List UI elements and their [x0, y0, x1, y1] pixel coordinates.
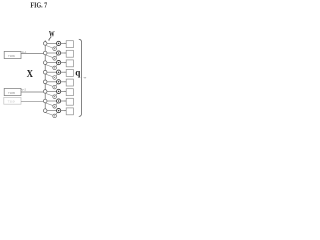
svg-text:q: q: [75, 68, 81, 78]
multiplier M7: [53, 105, 57, 109]
adder A5: [57, 80, 61, 84]
svg-text:7110: 7110: [8, 100, 16, 104]
arrow W to X line: [48, 37, 51, 41]
register R6: [66, 89, 73, 96]
adder A7: [57, 99, 61, 103]
svg-text:w-2: w-2: [21, 87, 26, 91]
wire node N2 to adder A2: [47, 52, 57, 54]
wire node N3 to adder A3: [47, 62, 57, 64]
wire X line to multiplier M1: [46, 45, 54, 48]
register R4: [66, 70, 73, 77]
wire multiplier M6 to adder A6: [56, 93, 58, 95]
wire adder A2 to register R2: [61, 52, 67, 53]
svg-text:7106: 7106: [8, 54, 16, 58]
svg-text:X: X: [27, 69, 34, 80]
node N4 on X line: [43, 70, 47, 74]
adder A4: [57, 70, 61, 74]
register R8: [66, 108, 73, 115]
multiplier M2: [53, 57, 57, 61]
wire multiplier M2 to adder A2: [56, 55, 58, 57]
wire node N5 to adder A5: [47, 81, 57, 83]
wire multiplier M8 to adder A8: [56, 113, 58, 115]
adder A2: [57, 51, 61, 55]
register R5: [66, 79, 73, 86]
input box B2 (7108): [4, 88, 21, 95]
register R1: [66, 41, 73, 48]
node N2 on X line: [43, 51, 47, 55]
svg-text:-w: -w: [83, 76, 87, 80]
node N6 on X line: [43, 90, 47, 94]
wire node N8 to adder A8: [47, 110, 57, 112]
multiplier M5: [53, 85, 57, 89]
brace grouping register column q: [79, 39, 82, 116]
multiplier M1: [53, 47, 57, 51]
node N1 on X line: [43, 42, 47, 46]
wire adder A6 to register R6: [61, 91, 67, 92]
node N7 on X line: [43, 99, 47, 103]
wire adder A4 to register R4: [61, 72, 67, 73]
wire node N6 to adder A6: [47, 90, 57, 92]
node N8 on X line: [43, 109, 47, 113]
wire node N7 to adder A7: [47, 100, 57, 102]
wire X line to multiplier M6: [46, 93, 54, 96]
multiplier M3: [53, 66, 57, 70]
wire adder A1 to register R1: [61, 43, 67, 44]
adder A6: [57, 89, 61, 93]
register R3: [66, 60, 73, 67]
wire B1 to node N2: [21, 53, 43, 55]
wire multiplier M3 to adder A3: [56, 65, 58, 67]
multiplier M4: [53, 76, 57, 80]
wire multiplier M7 to adder A7: [56, 103, 58, 105]
wire adder A7 to register R7: [61, 100, 67, 101]
multiplier M6: [53, 95, 57, 99]
adder A8: [57, 109, 61, 113]
wire multiplier M1 to adder A1: [56, 45, 58, 47]
wire multiplier M4 to adder A4: [56, 74, 58, 76]
node N5 on X line: [43, 80, 47, 84]
wire node N4 to adder A4: [47, 71, 57, 73]
wire adder A5 to register R5: [61, 81, 67, 82]
svg-text:FIG. 7: FIG. 7: [30, 0, 47, 9]
input box B1 (7106): [4, 51, 21, 58]
wire B3 to node N7: [21, 100, 43, 102]
multiplier M8: [53, 114, 57, 118]
wire X line to multiplier M7: [46, 103, 54, 106]
svg-text:7108: 7108: [8, 91, 16, 95]
wire B2 to node N6: [21, 91, 43, 93]
X broadcast line: [44, 40, 46, 113]
input box B3 (7110, faint): [4, 97, 21, 104]
wire X line to multiplier M8: [46, 113, 54, 116]
wire node N1 to adder A1: [47, 42, 57, 44]
register R7: [66, 98, 73, 105]
wire adder A8 to register R8: [61, 110, 67, 111]
wire X line to multiplier M5: [46, 84, 54, 87]
adder A1: [57, 41, 61, 45]
wire adder A3 to register R3: [61, 62, 67, 63]
adder A3: [57, 61, 61, 65]
wire multiplier M5 to adder A5: [56, 84, 58, 86]
wire X line to multiplier M2: [46, 55, 54, 58]
node N3 on X line: [43, 61, 47, 65]
svg-text:W: W: [49, 28, 55, 38]
register R2: [66, 50, 73, 57]
wire X line to multiplier M4: [46, 74, 54, 77]
wire X line to multiplier M3: [46, 65, 54, 68]
